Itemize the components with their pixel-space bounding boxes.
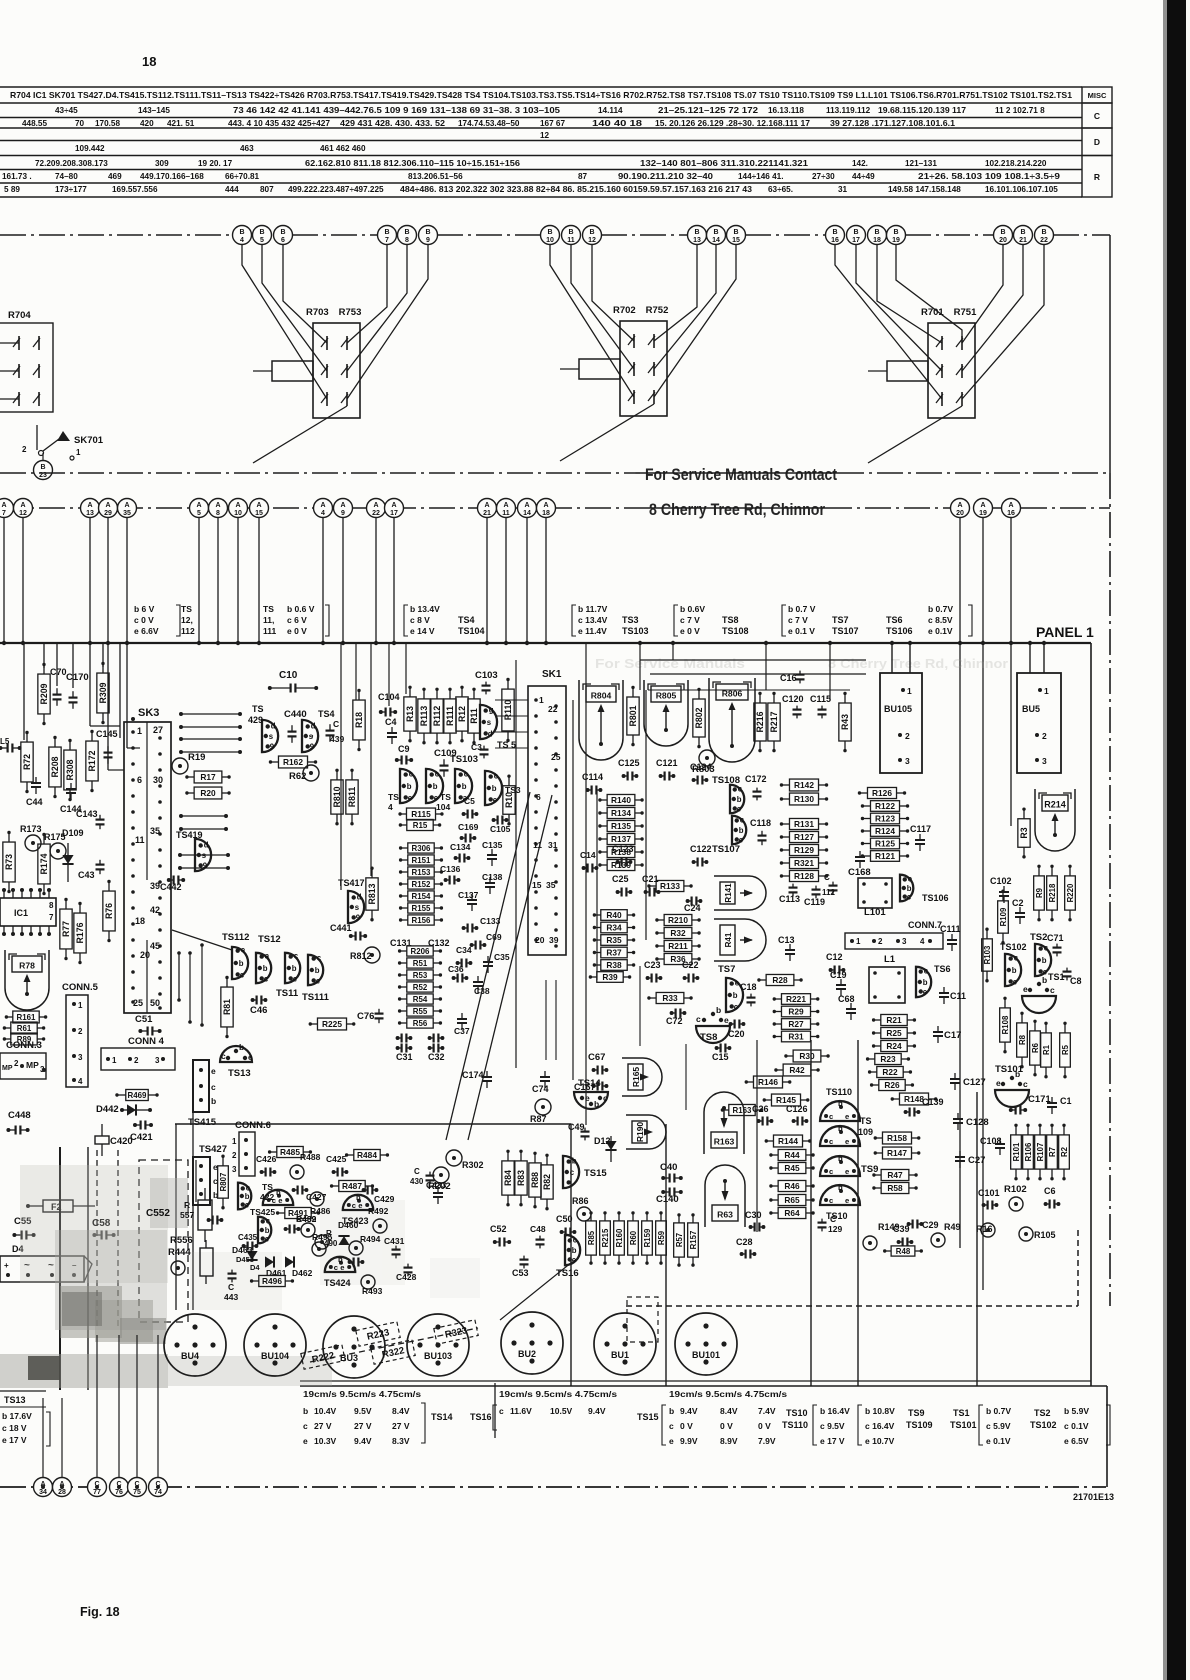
- resistor R73: [3, 831, 15, 894]
- resistor R138: [598, 846, 644, 857]
- svg-text:R39: R39: [602, 972, 618, 982]
- svg-text:C19: C19: [830, 970, 847, 980]
- svg-text:109.442: 109.442: [75, 144, 105, 153]
- svg-text:e 0 V: e 0 V: [287, 626, 307, 636]
- svg-text:121–131: 121–131: [905, 159, 937, 168]
- svg-text:1: 1: [137, 726, 142, 736]
- svg-text:e: e: [211, 1066, 216, 1076]
- svg-text:TS6: TS6: [886, 615, 903, 625]
- resistor R147: [874, 1147, 921, 1159]
- svg-text:TS419: TS419: [176, 830, 203, 840]
- svg-text:6: 6: [536, 792, 541, 802]
- svg-text:R142: R142: [794, 780, 814, 790]
- terminal C77: [88, 1478, 107, 1497]
- component location table grid: [0, 87, 1082, 197]
- svg-text:R87: R87: [530, 1114, 547, 1124]
- svg-text:e: e: [493, 795, 498, 804]
- svg-text:35: 35: [123, 510, 131, 517]
- transistor TS109: [820, 1116, 873, 1146]
- transistor TS429: [248, 704, 278, 752]
- capacitor C425: [326, 1154, 348, 1177]
- trimmer R202: [428, 1167, 451, 1192]
- resistor R15: [399, 819, 442, 830]
- trimmer R489: [296, 1214, 317, 1237]
- diode D460: [338, 1220, 359, 1245]
- svg-text:140 40 18: 140 40 18: [592, 119, 643, 128]
- svg-text:143–145: 143–145: [138, 106, 170, 115]
- svg-text:9: 9: [310, 742, 315, 751]
- svg-text:5: 5: [260, 237, 264, 244]
- connector SK1: [528, 669, 566, 955]
- capacitor C131: [390, 938, 412, 1043]
- svg-text:TS3: TS3: [622, 615, 639, 625]
- resistor R28: [757, 974, 803, 985]
- resistor R216: [754, 692, 766, 753]
- svg-text:A: A: [373, 502, 378, 509]
- svg-text:e: e: [358, 1201, 362, 1210]
- svg-text:CONN.3: CONN.3: [6, 1040, 42, 1051]
- svg-text:b: b: [303, 1406, 308, 1416]
- svg-text:R6: R6: [1031, 1042, 1040, 1053]
- svg-text:R77: R77: [61, 921, 71, 937]
- svg-text:R19: R19: [188, 752, 205, 763]
- svg-text:15: 15: [532, 880, 542, 890]
- svg-text:4: 4: [388, 802, 393, 812]
- capacitor C105: [490, 816, 511, 835]
- svg-text:e: e: [248, 1052, 253, 1062]
- svg-text:R37: R37: [606, 947, 622, 957]
- svg-text:e 17 V: e 17 V: [820, 1436, 845, 1446]
- bus right dash-dot vertical: [1109, 473, 1111, 1306]
- svg-text:BU1: BU1: [611, 1350, 629, 1360]
- svg-text:C143: C143: [76, 809, 98, 819]
- capacitor C103: [475, 670, 498, 694]
- svg-text:c 7 V: c 7 V: [680, 615, 700, 625]
- svg-text:C102: C102: [990, 876, 1012, 886]
- resistor R485: [268, 1146, 312, 1157]
- svg-text:21: 21: [483, 510, 491, 517]
- svg-text:TS: TS: [860, 1116, 872, 1126]
- svg-text:3: 3: [902, 937, 907, 946]
- capacitor C115: [810, 694, 831, 718]
- terminal B21: [1014, 226, 1033, 245]
- svg-text:BU3: BU3: [340, 1353, 358, 1363]
- dashed box near BU1: [627, 1297, 658, 1342]
- socket BU4: [164, 1314, 226, 1376]
- transistor TS104: [426, 769, 451, 812]
- capacitor C13: [778, 935, 795, 961]
- svg-text:R210: R210: [668, 915, 688, 925]
- wire bus right edge down: [1109, 235, 1111, 473]
- svg-text:R159: R159: [643, 1228, 652, 1247]
- svg-text:R162: R162: [283, 757, 303, 767]
- svg-text:429: 429: [248, 715, 263, 725]
- capacitor C430: [410, 1167, 435, 1186]
- svg-text:b: b: [433, 782, 438, 791]
- resistor R18: [353, 689, 365, 752]
- svg-text:9.4V: 9.4V: [354, 1436, 372, 1446]
- svg-text:20: 20: [999, 237, 1007, 244]
- svg-text:TS417: TS417: [338, 878, 365, 888]
- resistor R45: [769, 1162, 815, 1173]
- svg-text:R163: R163: [733, 1106, 753, 1115]
- capacitor C31: [396, 1044, 413, 1063]
- resistor R72: [21, 731, 33, 794]
- svg-text:R133: R133: [660, 881, 680, 891]
- svg-text:22: 22: [372, 510, 380, 517]
- capacitor C120: [782, 694, 804, 718]
- terminal B4: [233, 226, 252, 245]
- resistor R52: [398, 982, 442, 992]
- svg-text:R59: R59: [657, 1230, 666, 1245]
- resistor R158: [874, 1132, 921, 1144]
- svg-text:2: 2: [1042, 731, 1047, 741]
- svg-text:B: B: [832, 229, 837, 236]
- svg-text:C30: C30: [745, 1210, 762, 1220]
- svg-text:b: b: [263, 964, 268, 973]
- svg-text:R42: R42: [789, 1065, 805, 1075]
- terminal A4: [314, 499, 333, 518]
- capacitor C43: [78, 860, 105, 880]
- svg-text:B: B: [404, 229, 409, 236]
- resistor R802: [693, 688, 705, 749]
- terminal C75: [128, 1478, 147, 1497]
- capacitor C109: [434, 748, 457, 777]
- diode D442: [96, 1104, 152, 1116]
- svg-text:C426: C426: [256, 1154, 277, 1164]
- svg-text:e: e: [303, 1436, 308, 1446]
- resistor R109: [998, 890, 1009, 945]
- svg-text:R53: R53: [413, 971, 428, 980]
- resistor R42: [774, 1064, 820, 1076]
- capacitor C421: [130, 1121, 153, 1144]
- svg-text:Fig. 18: Fig. 18: [80, 1605, 120, 1619]
- svg-text:c 18 V: c 18 V: [2, 1423, 27, 1433]
- svg-text:e: e: [1023, 984, 1028, 994]
- svg-text:R493: R493: [362, 1286, 383, 1296]
- svg-text:8.4V: 8.4V: [720, 1406, 738, 1416]
- svg-text:s: s: [269, 732, 274, 741]
- svg-text:R109: R109: [999, 907, 1008, 926]
- svg-text:A: A: [524, 502, 529, 509]
- terminal A15: [250, 499, 269, 518]
- capacitor C27: [955, 1151, 985, 1168]
- svg-text:R32: R32: [670, 928, 686, 938]
- svg-text:b 11.7V: b 11.7V: [578, 604, 608, 614]
- bus line 3 / A row (dash-dot): [0, 507, 1110, 509]
- svg-text:e: e: [845, 1196, 849, 1205]
- svg-text:C13: C13: [778, 935, 795, 945]
- resistor R40: [593, 910, 636, 921]
- svg-text:R146: R146: [758, 1077, 778, 1087]
- capacitor C169: [458, 822, 479, 843]
- resistor R33: [647, 992, 693, 1003]
- svg-text:B: B: [568, 229, 573, 236]
- resistor R17: [185, 771, 231, 783]
- svg-text:R22: R22: [882, 1067, 898, 1077]
- svg-text:C120: C120: [782, 694, 804, 704]
- svg-text:TS108: TS108: [722, 626, 749, 636]
- svg-text:R112: R112: [432, 706, 442, 727]
- capacitor C133: [462, 916, 501, 933]
- svg-text:1: 1: [907, 686, 912, 696]
- resistor R53: [398, 970, 442, 980]
- resistor R124: [861, 826, 909, 837]
- svg-text:142.: 142.: [852, 159, 868, 168]
- voltages TS3/TS103: [572, 604, 649, 636]
- resistor R209: [38, 663, 50, 726]
- resistor R22: [868, 1066, 912, 1077]
- svg-text:B: B: [694, 229, 699, 236]
- svg-text:BU2: BU2: [518, 1349, 536, 1359]
- wire TS16 diagonal: [500, 1262, 572, 1320]
- svg-text:e: e: [278, 1196, 282, 1205]
- svg-text:TS: TS: [262, 1182, 273, 1192]
- svg-text:MP: MP: [2, 1065, 13, 1072]
- svg-text:c: c: [435, 770, 440, 779]
- connector CONN.4: [101, 1036, 175, 1070]
- svg-text:c: c: [1044, 944, 1049, 953]
- svg-text:21: 21: [1019, 237, 1027, 244]
- svg-text:C117: C117: [910, 824, 931, 834]
- svg-text:75: 75: [133, 1489, 141, 1496]
- trimmer R173: [20, 824, 42, 851]
- svg-text:C169: C169: [458, 822, 479, 832]
- svg-text:469: 469: [108, 172, 122, 181]
- capacitor C127: [950, 1073, 986, 1090]
- resistor R222 (dashed): [301, 1345, 345, 1369]
- svg-text:R34: R34: [606, 922, 622, 932]
- switch SK701: [22, 425, 104, 460]
- svg-text:e 11.4V: e 11.4V: [578, 626, 607, 636]
- svg-text:21–25.121–125 72 172: 21–25.121–125 72 172: [658, 106, 759, 115]
- svg-text:461 462 460: 461 462 460: [320, 144, 366, 153]
- capacitor C74: [532, 1071, 550, 1094]
- capacitor C1: [1047, 1096, 1072, 1114]
- terminal B14: [707, 226, 726, 245]
- capacitor C433: [426, 1180, 447, 1204]
- trimmer R492: [368, 1206, 389, 1233]
- resistor R24: [872, 1040, 916, 1051]
- terminal B19: [887, 226, 906, 245]
- capacitor C442: [160, 876, 185, 893]
- wire horizontal rows right of SK1: [640, 660, 866, 690]
- capacitor C122: [690, 844, 712, 867]
- svg-text:C118: C118: [750, 818, 771, 828]
- svg-text:76: 76: [115, 1489, 123, 1496]
- svg-text:C111: C111: [940, 924, 961, 934]
- resistor R123: [861, 813, 909, 824]
- svg-text:45: 45: [150, 941, 160, 951]
- capacitor C55: [12, 1216, 35, 1240]
- svg-text:173÷177: 173÷177: [55, 185, 87, 194]
- svg-text:C440: C440: [284, 709, 307, 720]
- capacitor C14: [580, 850, 598, 873]
- resistor R159: [642, 1211, 653, 1265]
- svg-text:c: c: [264, 974, 269, 983]
- svg-text:1: 1: [112, 1056, 117, 1065]
- svg-text:R149: R149: [878, 1222, 900, 1232]
- trimmer R803: [692, 750, 715, 775]
- transistor TS12: [256, 934, 281, 983]
- svg-text:C168: C168: [848, 867, 871, 878]
- capacitor C124: [690, 762, 712, 785]
- svg-text:R101: R101: [1012, 1142, 1021, 1161]
- svg-text:R52: R52: [413, 983, 428, 992]
- resistor R223 (dashed): [356, 1322, 400, 1346]
- svg-text:TS10: TS10: [786, 1408, 808, 1418]
- svg-text:R704: R704: [8, 310, 31, 321]
- resistor R206: [398, 946, 442, 956]
- svg-text:b: b: [572, 1157, 577, 1166]
- trimmer R16: [976, 1223, 995, 1237]
- svg-text:R57: R57: [675, 1233, 684, 1247]
- svg-text:C172: C172: [745, 774, 767, 784]
- capacitor C431: [384, 1236, 405, 1258]
- resistor R60: [628, 1211, 639, 1265]
- resistor R557: [180, 1188, 212, 1242]
- transistor TS106b: [900, 874, 949, 903]
- svg-text:R54: R54: [413, 995, 428, 1004]
- svg-text:A: A: [105, 502, 110, 509]
- svg-text:e 0.1 V: e 0.1 V: [788, 626, 815, 636]
- svg-text:R209: R209: [39, 683, 49, 704]
- svg-text:C52: C52: [490, 1224, 507, 1234]
- resistor R156: [399, 915, 443, 925]
- svg-text:448.55: 448.55: [22, 119, 47, 128]
- svg-text:C435: C435: [238, 1233, 258, 1242]
- svg-text:R2: R2: [1060, 1146, 1069, 1157]
- svg-text:b 16.4V: b 16.4V: [820, 1406, 850, 1416]
- svg-text:R811: R811: [347, 787, 357, 808]
- svg-text:C125: C125: [618, 758, 640, 768]
- voltages TS7/TS107: [782, 604, 859, 636]
- svg-text:c 0.1V: c 0.1V: [1064, 1421, 1089, 1431]
- svg-text:R31: R31: [788, 1031, 804, 1041]
- svg-text:s: s: [487, 718, 492, 727]
- capacitor C68: [838, 994, 856, 1020]
- svg-text:74: 74: [154, 1489, 162, 1496]
- svg-text:C17: C17: [944, 1030, 961, 1041]
- capacitor C30: [745, 1210, 765, 1232]
- svg-text:R15: R15: [413, 821, 428, 830]
- resistor R76: [103, 880, 115, 943]
- ghost watermark band 1: [595, 656, 1008, 671]
- svg-text:C167: C167: [574, 1082, 596, 1092]
- trimmer R812: [350, 947, 380, 963]
- svg-text:b: b: [211, 1096, 216, 1106]
- svg-text:R801: R801: [628, 705, 638, 726]
- socket BU104: [244, 1314, 306, 1376]
- svg-text:B: B: [280, 229, 285, 236]
- capacitor C428: [396, 1264, 417, 1282]
- svg-text:0 V: 0 V: [680, 1421, 693, 1431]
- svg-text:b: b: [1042, 975, 1047, 985]
- potentiometer R165: [622, 1058, 662, 1096]
- resistor R23: [866, 1053, 910, 1064]
- resistor R25: [872, 1027, 916, 1038]
- svg-text:B: B: [40, 464, 45, 471]
- svg-text:A: A: [957, 502, 962, 509]
- svg-text:TS16: TS16: [470, 1412, 492, 1422]
- svg-text:C51: C51: [135, 1014, 153, 1025]
- svg-text:R64: R64: [784, 1208, 800, 1218]
- svg-text:a: a: [265, 952, 270, 961]
- svg-text:e: e: [241, 946, 246, 955]
- svg-text:C8: C8: [1070, 976, 1082, 986]
- svg-text:TS: TS: [388, 792, 399, 802]
- terminal A9: [334, 499, 353, 518]
- svg-text:R495: R495: [312, 1232, 333, 1242]
- svg-text:R469: R469: [128, 1091, 148, 1100]
- junction dots on main rail: [2, 641, 1046, 1489]
- potentiometer R63: [705, 1165, 745, 1227]
- capacitor C34: [456, 945, 473, 968]
- transistor TS428: [302, 709, 335, 752]
- svg-text:R83: R83: [516, 1170, 526, 1186]
- svg-text:C428: C428: [396, 1272, 417, 1282]
- svg-text:62.162.810 811.18 812.306.110–: 62.162.810 811.18 812.306.110–115 10÷15.…: [305, 159, 520, 168]
- resistor R221: [773, 994, 820, 1005]
- dashed box lower-left: [139, 1160, 188, 1322]
- svg-text:R13: R13: [405, 706, 415, 722]
- svg-text:4: 4: [920, 937, 925, 946]
- svg-text:0 V: 0 V: [720, 1421, 733, 1431]
- resistor R47: [872, 1169, 918, 1180]
- wires bottom terminals up: [43, 1335, 158, 1477]
- svg-text:C103: C103: [475, 670, 498, 681]
- transistor TS426 partial: [238, 1183, 251, 1210]
- resistor R56: [398, 1018, 442, 1028]
- capacitor C25: [612, 874, 632, 897]
- capacitor C119: [804, 886, 825, 907]
- svg-text:9: 9: [270, 742, 275, 751]
- svg-text:e 10.7V: e 10.7V: [865, 1436, 895, 1446]
- capacitor C28: [736, 1237, 756, 1259]
- capacitor C72: [666, 1009, 686, 1027]
- terminal B15: [727, 226, 746, 245]
- capacitor C420: [95, 1124, 133, 1156]
- capacitor C16: [780, 671, 805, 684]
- svg-text:L101: L101: [864, 907, 886, 918]
- svg-text:174.74.53.48–50: 174.74.53.48–50: [458, 119, 520, 128]
- svg-text:BU105: BU105: [884, 704, 912, 714]
- svg-text:309: 309: [155, 159, 169, 168]
- svg-text:R25: R25: [886, 1028, 902, 1038]
- svg-text:R: R: [184, 1200, 190, 1210]
- svg-text:TS15: TS15: [584, 1168, 607, 1179]
- svg-text:c: c: [1014, 954, 1019, 963]
- svg-text:C22: C22: [682, 960, 699, 970]
- svg-text:28: 28: [58, 1489, 66, 1496]
- svg-text:3: 3: [78, 1053, 83, 1062]
- table row R line 3: [4, 185, 1058, 194]
- svg-text:R8: R8: [1018, 1034, 1027, 1045]
- trimmer R102: [1004, 1184, 1027, 1211]
- bus bottom (dash-dot): [0, 1486, 1106, 1488]
- svg-text:R28: R28: [772, 975, 788, 985]
- svg-text:e 0 V: e 0 V: [680, 626, 700, 636]
- svg-text:c: c: [211, 1082, 216, 1092]
- svg-text:BU104: BU104: [261, 1351, 289, 1361]
- svg-text:19: 19: [892, 237, 900, 244]
- capacitor C49: [568, 1122, 590, 1140]
- svg-text:9.9V: 9.9V: [680, 1436, 698, 1446]
- capacitor C37: [454, 1013, 470, 1036]
- svg-text:R86: R86: [572, 1196, 589, 1206]
- trimmer R494: [349, 1234, 381, 1255]
- svg-text:8.3V: 8.3V: [392, 1436, 410, 1446]
